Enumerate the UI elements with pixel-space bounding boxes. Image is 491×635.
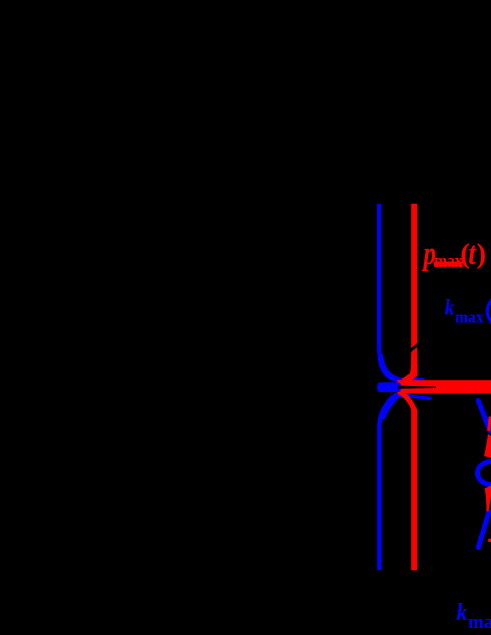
svg-text:max: max: [468, 612, 491, 633]
svg-text:k: k: [456, 600, 467, 626]
svg-text:): ): [477, 238, 487, 270]
svg-text:k: k: [445, 295, 454, 320]
svg-text:max: max: [455, 308, 484, 327]
svg-text:t: t: [468, 236, 476, 272]
